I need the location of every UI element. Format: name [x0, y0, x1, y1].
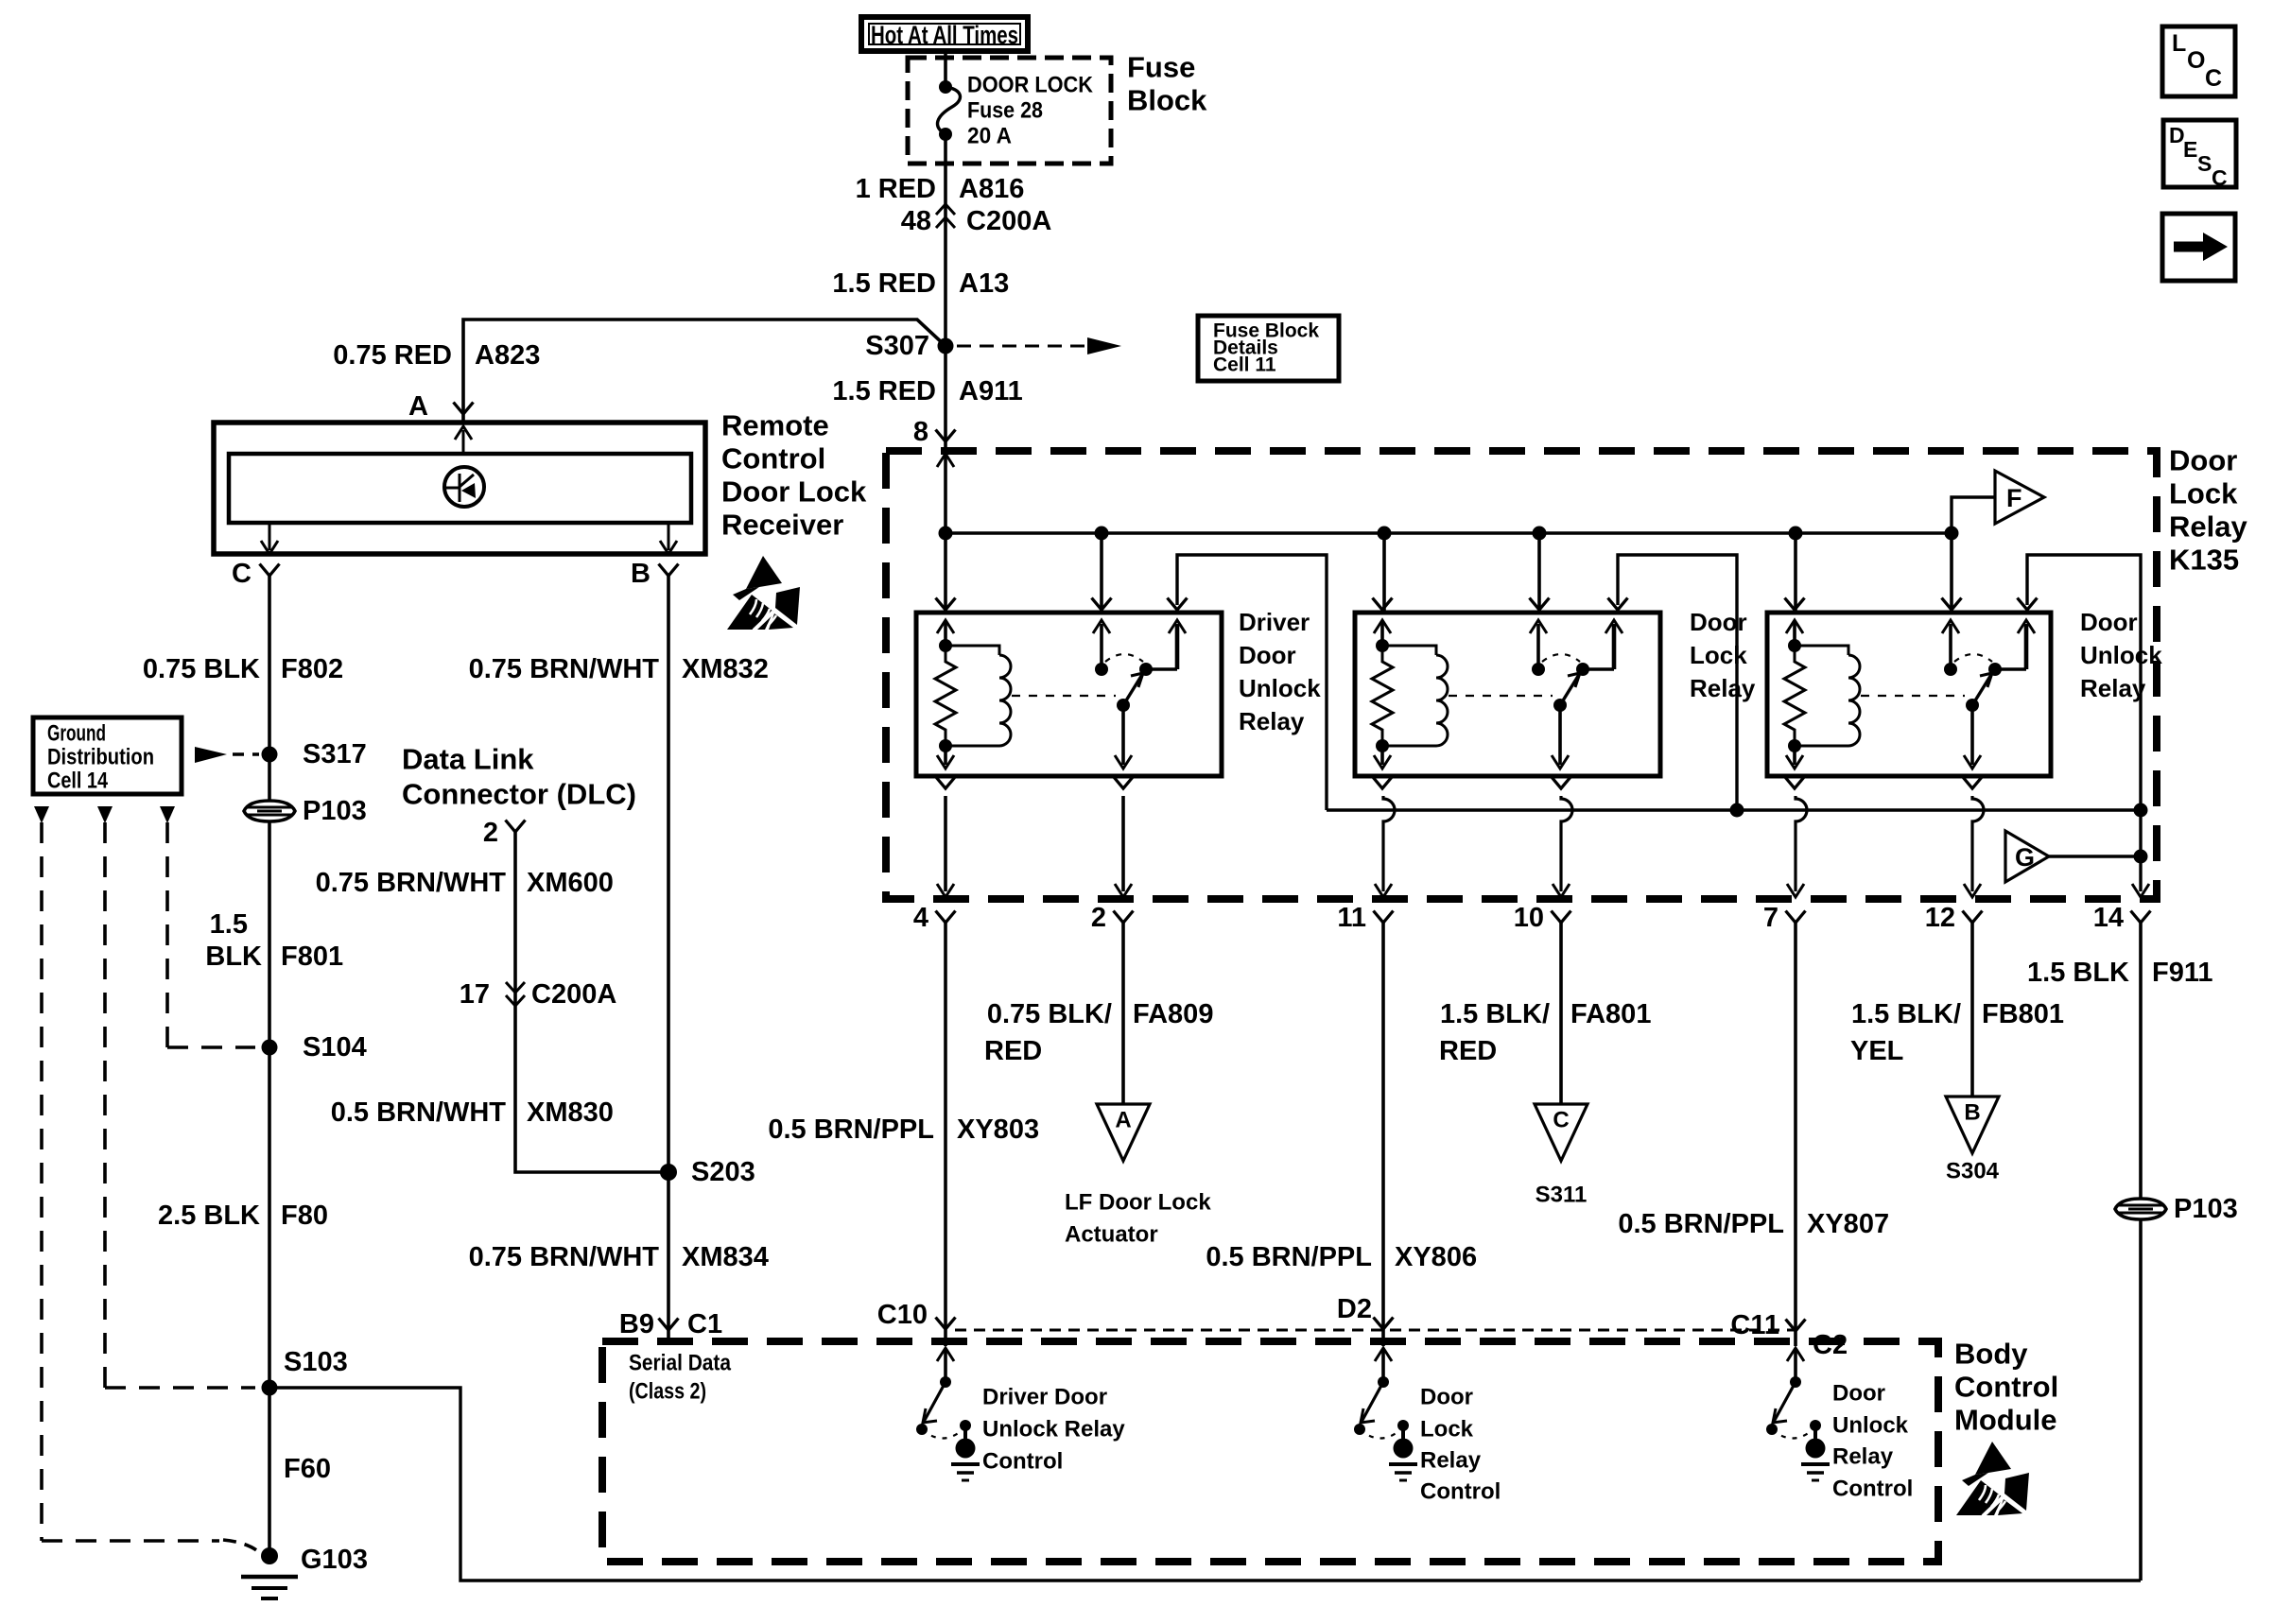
svg-text:Body: Body	[1954, 1338, 2028, 1371]
svg-text:Door: Door	[2169, 444, 2237, 477]
svg-text:DOOR LOCK: DOOR LOCK	[967, 73, 1094, 98]
label S304	[1946, 1159, 2000, 1184]
connector pin 2 below relay box	[1091, 903, 1134, 933]
svg-text:C: C	[2212, 165, 2228, 190]
svg-text:FB801: FB801	[1982, 999, 2064, 1029]
relay 1 top connectors	[936, 598, 1188, 611]
svg-text:Connector (DLC): Connector (DLC)	[402, 778, 636, 811]
ref box Fuse Block Details Cell 11	[1198, 316, 1339, 381]
svg-text:14: 14	[2093, 903, 2124, 933]
relay 1 internals: coil, resistor, switch	[935, 620, 1186, 769]
svg-text:Relay: Relay	[1832, 1444, 1894, 1470]
relay 3 internals: coil, resistor, switch	[1784, 620, 2035, 769]
connector pin 14 below relay box	[2093, 903, 2151, 933]
wire label 0.5 BRN/PPL XY803	[768, 1114, 1039, 1145]
svg-text:Module: Module	[1954, 1404, 2057, 1437]
wire label 1.5 RED A911	[832, 376, 1022, 406]
wire label 0.75 BLK/RED FA809	[984, 999, 1213, 1066]
svg-text:Distribution: Distribution	[47, 745, 154, 770]
connector pin 12 below relay box	[1925, 903, 1983, 933]
svg-text:F911: F911	[2152, 958, 2213, 988]
svg-text:RED: RED	[984, 1036, 1042, 1066]
wire pin14 down to bottom run	[2139, 923, 2143, 1581]
wire pin7 to BCM C11	[1794, 923, 1797, 1346]
svg-text:Lock: Lock	[1420, 1417, 1474, 1443]
svg-text:Control: Control	[1420, 1479, 1501, 1505]
svg-text:20 A: 20 A	[967, 124, 1012, 149]
receiver pin B arrow	[660, 522, 677, 554]
svg-text:P103: P103	[2174, 1194, 2238, 1224]
wire A823: S307 diagonal + horizontal to receiver pin A	[463, 320, 946, 421]
connector G triangle	[2005, 831, 2148, 882]
svg-text:G: G	[2015, 843, 2035, 872]
wire label 0.75 BRN/WHT XM832	[469, 654, 769, 684]
svg-text:S103: S103	[284, 1347, 348, 1377]
connector C200A pin 48	[901, 204, 1052, 236]
connector A triangle to LF door lock actuator	[1097, 1104, 1150, 1161]
relay 3 output wire	[2027, 555, 2141, 891]
svg-text:48: 48	[901, 206, 931, 236]
label Serial Data (Class 2)	[629, 1351, 732, 1405]
wire: Hot box to fuse	[944, 51, 947, 87]
dashed ref arrow S307 to fuse details	[957, 337, 1121, 354]
label S311	[1536, 1183, 1588, 1208]
svg-text:B9: B9	[619, 1309, 654, 1339]
connector pin 11 below relay box	[1337, 903, 1393, 933]
ground G103	[241, 1545, 368, 1598]
svg-text:2: 2	[1091, 903, 1106, 933]
wire label 2.5 BLK F80	[158, 1201, 328, 1231]
relay 1 box (Driver Door Unlock Relay)	[916, 613, 1222, 776]
connector B triangle to S304	[1946, 1097, 1999, 1153]
dashed wire from cell14 to S103	[105, 822, 255, 1388]
wire pin10 to S311	[1559, 923, 1563, 1104]
connector DLC pin 2	[483, 818, 526, 848]
connector pin 8 into relay box	[913, 417, 956, 467]
svg-text:Fuse: Fuse	[1127, 51, 1195, 84]
wire label 0.5 BRN/WHT XM830	[331, 1097, 614, 1128]
svg-text:Relay: Relay	[1239, 707, 1305, 735]
svg-text:0.5 BRN/WHT: 0.5 BRN/WHT	[331, 1097, 507, 1128]
svg-text:FA801: FA801	[1570, 999, 1651, 1029]
dashed wire from cell14 to G103	[42, 822, 263, 1556]
dashed ref arrow to S317	[195, 747, 259, 763]
wire: S307 to pin 8	[944, 346, 947, 613]
wire label 0.5 BRN/PPL XY807	[1618, 1209, 1889, 1239]
svg-text:XM832: XM832	[682, 654, 769, 684]
fuse F28 symbol	[938, 80, 961, 141]
svg-text:Fuse 28: Fuse 28	[967, 98, 1043, 124]
svg-text:S203: S203	[691, 1157, 755, 1187]
wire pin2 to actuator	[1121, 923, 1125, 1104]
bus junction dots	[939, 527, 1959, 541]
fuse block dashed box	[908, 58, 1111, 164]
label P103 right	[2174, 1194, 2238, 1224]
relay 1 output wire	[1177, 555, 1327, 810]
ESD symbol at BCM	[1956, 1442, 2029, 1516]
label Door Lock Relay K135	[2169, 444, 2247, 577]
BCM door lock relay control switch	[1354, 1348, 1417, 1480]
connector pin B	[631, 559, 678, 589]
svg-text:A823: A823	[475, 340, 540, 371]
receiver outer box	[214, 423, 705, 554]
svg-text:0.5 BRN/PPL: 0.5 BRN/PPL	[768, 1114, 934, 1145]
legend box DESC	[2163, 120, 2236, 190]
svg-text:XY803: XY803	[957, 1114, 1039, 1145]
svg-text:XM830: XM830	[527, 1097, 614, 1128]
wire: S103 to bottom run to P103	[269, 1388, 2141, 1581]
cell14 arrowheads	[34, 806, 175, 823]
relay 2 box (Door Lock Relay)	[1355, 613, 1660, 776]
svg-text:F: F	[2006, 484, 2022, 512]
svg-text:A911: A911	[959, 376, 1023, 406]
relay pin 14 arrow	[2132, 884, 2149, 897]
svg-text:A: A	[1115, 1108, 1131, 1133]
svg-text:Door: Door	[1239, 641, 1296, 669]
svg-text:S: S	[2197, 151, 2212, 176]
svg-text:BLK: BLK	[205, 942, 262, 972]
connector C200A pin 17	[460, 979, 617, 1010]
connector C triangle to S311	[1535, 1104, 1588, 1161]
svg-text:1.5 RED: 1.5 RED	[832, 376, 936, 406]
svg-text:1.5 RED: 1.5 RED	[832, 268, 936, 299]
legend box arrow	[2162, 214, 2235, 281]
wire pin11 to BCM D2	[1381, 923, 1385, 1346]
svg-text:S311: S311	[1536, 1183, 1588, 1208]
svg-text:Control: Control	[721, 442, 825, 475]
svg-text:C: C	[1553, 1108, 1569, 1133]
svg-text:Unlock Relay: Unlock Relay	[982, 1417, 1125, 1443]
splice S317	[262, 739, 367, 769]
label LF Door Lock Actuator	[1065, 1190, 1211, 1248]
svg-text:F801: F801	[281, 942, 343, 972]
label Driver Door Unlock Relay Control	[982, 1385, 1125, 1475]
label Door Unlock Relay Control	[1832, 1381, 1913, 1502]
svg-text:Remote: Remote	[721, 409, 829, 442]
relay 1 bottom connectors	[936, 777, 1134, 789]
svg-text:Data Link: Data Link	[402, 743, 534, 776]
svg-text:S307: S307	[865, 331, 929, 361]
splice S104	[262, 1032, 367, 1063]
svg-text:A816: A816	[959, 174, 1024, 204]
svg-text:Driver Door: Driver Door	[982, 1385, 1107, 1410]
svg-text:12: 12	[1925, 903, 1955, 933]
wire label 1.5 BLK F801	[205, 909, 343, 972]
wire label 0.5 BRN/PPL XY806	[1206, 1242, 1477, 1272]
splice S307	[865, 331, 953, 361]
label Data Link Connector (DLC)	[402, 743, 636, 811]
ESD symbol at receiver	[727, 556, 800, 631]
svg-text:(Class 2): (Class 2)	[629, 1379, 706, 1405]
receiver pin A arrow	[455, 426, 472, 453]
svg-text:Ground: Ground	[47, 721, 106, 747]
splice S203	[660, 1157, 755, 1187]
svg-text:0.5 BRN/PPL: 0.5 BRN/PPL	[1618, 1209, 1784, 1239]
connector pin 4 below relay box	[913, 903, 956, 933]
BCM connector dashed pin line	[955, 1329, 1796, 1332]
svg-text:B: B	[631, 559, 651, 589]
relay 2 bottom connectors	[1373, 777, 1571, 789]
svg-text:1.5 BLK/: 1.5 BLK/	[1851, 999, 1961, 1029]
svg-text:Relay: Relay	[1690, 674, 1756, 702]
svg-text:Relay: Relay	[2169, 510, 2247, 544]
relay pin 7 wire	[1787, 796, 1807, 897]
wire: receiver B down to BCM pin B9/C1	[667, 576, 670, 1341]
svg-text:Door: Door	[1832, 1381, 1885, 1407]
svg-text:Control: Control	[1832, 1477, 1913, 1502]
connector F triangle	[1995, 471, 2044, 524]
connector pin 7 below relay box	[1763, 903, 1806, 933]
ground distribution box	[33, 717, 182, 794]
wire: fuse to C200A	[944, 134, 947, 346]
svg-text:Lock: Lock	[1690, 641, 1747, 669]
wire label 0.75 RED A823	[333, 340, 540, 371]
wire label 1.5 BLK F911	[2027, 958, 2212, 988]
power label box: Hot At All Times	[861, 17, 1028, 51]
svg-text:2: 2	[483, 818, 498, 848]
wire: receiver C down to G103	[268, 576, 271, 1556]
svg-text:Driver: Driver	[1239, 608, 1310, 636]
svg-text:S104: S104	[303, 1032, 367, 1063]
svg-text:XM834: XM834	[682, 1242, 769, 1272]
svg-text:F80: F80	[281, 1201, 328, 1231]
wire label 0.75 BRN/WHT XM600	[316, 868, 614, 898]
body control module dashed box	[602, 1341, 1938, 1562]
relay 3 bottom connectors	[1785, 777, 1983, 789]
svg-text:0.75 BLK: 0.75 BLK	[143, 654, 260, 684]
svg-text:C: C	[2205, 65, 2222, 92]
svg-text:1 RED: 1 RED	[856, 174, 936, 204]
label Remote Control Door Lock Receiver	[721, 409, 867, 542]
svg-text:C: C	[232, 559, 252, 589]
wire label 1 RED A816	[856, 174, 1025, 204]
svg-text:Control: Control	[982, 1449, 1063, 1475]
relay outputs bus	[1327, 803, 2148, 818]
relay pin 4 wire	[937, 796, 954, 897]
svg-text:2.5 BLK: 2.5 BLK	[158, 1201, 260, 1231]
svg-text:Unlock: Unlock	[1239, 674, 1321, 702]
relay 2 internals: coil, resistor, switch	[1372, 620, 1622, 769]
svg-text:Lock: Lock	[2169, 477, 2238, 510]
label Fuse Block	[1127, 51, 1207, 117]
svg-text:C11: C11	[1730, 1310, 1779, 1340]
svg-text:0.5 BRN/PPL: 0.5 BRN/PPL	[1206, 1242, 1372, 1272]
svg-text:FA809: FA809	[1133, 999, 1213, 1029]
svg-text:P103: P103	[303, 796, 367, 826]
relay pin 10 wire	[1553, 796, 1572, 897]
wire label 0.75 BRN/WHT XM834	[469, 1242, 769, 1272]
svg-text:7: 7	[1763, 903, 1778, 933]
relay pin 11 wire	[1375, 796, 1395, 897]
svg-text:XM600: XM600	[527, 868, 614, 898]
svg-text:8: 8	[913, 417, 928, 447]
svg-text:C2: C2	[1813, 1330, 1848, 1360]
legend box LOC	[2162, 26, 2235, 96]
svg-text:0.75 BRN/WHT: 0.75 BRN/WHT	[469, 654, 660, 684]
label Door Lock Relay	[1690, 608, 1756, 702]
receiver antenna circle symbol	[444, 467, 484, 507]
svg-text:F60: F60	[284, 1454, 331, 1484]
bus wire from pin 8 across relay coils	[946, 531, 1952, 534]
svg-text:0.75 BLK/: 0.75 BLK/	[987, 999, 1112, 1029]
label Door Unlock Relay	[2080, 608, 2162, 702]
fuse text DOOR LOCK Fuse 28 20 A	[967, 73, 1094, 149]
receiver pin C arrow	[261, 522, 278, 554]
svg-text:C200A: C200A	[531, 979, 616, 1010]
svg-text:G103: G103	[301, 1545, 368, 1575]
svg-text:Serial Data: Serial Data	[629, 1351, 732, 1376]
grommet P103 right	[2115, 1199, 2166, 1219]
BCM driver door unlock relay control switch	[916, 1348, 980, 1480]
svg-text:Unlock: Unlock	[2080, 641, 2162, 669]
wire pin4 to BCM C10	[944, 923, 947, 1346]
svg-text:0.75 BRN/WHT: 0.75 BRN/WHT	[469, 1242, 660, 1272]
svg-text:B: B	[1964, 1100, 1980, 1126]
wire label 1.5 BLK/RED FA801	[1439, 999, 1651, 1066]
svg-text:LF Door Lock: LF Door Lock	[1065, 1190, 1211, 1216]
svg-text:Control: Control	[1954, 1371, 2058, 1404]
svg-text:C1: C1	[687, 1309, 722, 1339]
label Driver Door Unlock Relay	[1239, 608, 1321, 735]
svg-text:RED: RED	[1439, 1036, 1497, 1066]
svg-text:0.75 RED: 0.75 RED	[333, 340, 452, 371]
relay 3 top connectors	[1785, 598, 2038, 611]
wire label 0.75 BLK F802	[143, 654, 343, 684]
svg-text:F802: F802	[281, 654, 343, 684]
svg-text:A13: A13	[959, 268, 1009, 299]
svg-text:A: A	[408, 391, 428, 422]
svg-text:4: 4	[913, 903, 928, 933]
svg-text:Actuator: Actuator	[1065, 1222, 1158, 1248]
wire label F60	[284, 1454, 331, 1484]
svg-text:Relay: Relay	[1420, 1448, 1482, 1474]
svg-text:Door: Door	[1420, 1385, 1473, 1410]
label Body Control Module	[1954, 1338, 2058, 1437]
svg-text:Unlock: Unlock	[1832, 1413, 1909, 1439]
splice S103	[262, 1347, 348, 1396]
connector pin C	[232, 559, 279, 589]
wire label 1.5 BLK/YEL FB801	[1850, 999, 2064, 1066]
relay pin 2 wire	[1115, 796, 1132, 897]
svg-text:Cell 14: Cell 14	[47, 769, 109, 794]
svg-text:XY807: XY807	[1807, 1209, 1889, 1239]
wire: DLC pin2 down to S203	[515, 832, 661, 1172]
relay pin 12 wire	[1964, 796, 1984, 897]
svg-text:11: 11	[1337, 903, 1366, 933]
svg-text:L: L	[2172, 30, 2186, 57]
svg-text:XY806: XY806	[1395, 1242, 1477, 1272]
svg-text:C10: C10	[877, 1300, 928, 1330]
connector pin 10 below relay box	[1514, 903, 1571, 933]
connector C11 C2	[1730, 1310, 1848, 1360]
svg-text:E: E	[2183, 137, 2197, 162]
relay 3 box (Door Unlock Relay)	[1767, 613, 2051, 776]
svg-text:1.5 BLK: 1.5 BLK	[2027, 958, 2129, 988]
svg-text:Door: Door	[2080, 608, 2138, 636]
svg-text:Block: Block	[1127, 84, 1207, 117]
receiver inner box	[229, 454, 691, 523]
wire pin12 to S304	[1970, 923, 1974, 1097]
svg-text:S317: S317	[303, 739, 367, 769]
wire to F connector	[1952, 497, 1995, 533]
svg-text:K135: K135	[2169, 544, 2239, 577]
svg-text:Relay: Relay	[2080, 674, 2146, 702]
svg-text:Receiver: Receiver	[721, 509, 843, 542]
svg-text:S304: S304	[1946, 1159, 2000, 1184]
relay 2 top connectors	[1373, 598, 1628, 611]
svg-text:1.5 BLK/: 1.5 BLK/	[1440, 999, 1550, 1029]
svg-text:10: 10	[1514, 903, 1544, 933]
svg-text:1.5: 1.5	[210, 909, 248, 940]
svg-text:Hot At All Times: Hot At All Times	[871, 21, 1018, 49]
connector D2	[1337, 1294, 1394, 1329]
relay 2 output wire	[1618, 555, 1737, 810]
wire label 1.5 RED A13	[832, 268, 1009, 299]
door lock relay K135 dashed box	[886, 451, 2157, 899]
svg-text:D2: D2	[1337, 1294, 1372, 1324]
svg-text:17: 17	[460, 979, 490, 1010]
svg-text:C200A: C200A	[966, 206, 1051, 236]
label P103 left	[303, 796, 367, 826]
svg-text:O: O	[2187, 47, 2205, 74]
dashed wire from cell14 to S104	[167, 822, 255, 1047]
svg-text:Door Lock: Door Lock	[721, 475, 867, 509]
svg-text:Cell 11: Cell 11	[1213, 354, 1276, 376]
svg-text:YEL: YEL	[1850, 1036, 1903, 1066]
connector B9 C1	[619, 1309, 722, 1339]
grommet P103 left	[244, 801, 295, 821]
bus vertical drops to relay pins	[1102, 533, 1952, 613]
connector C10	[877, 1300, 956, 1330]
label Door Lock Relay Control	[1420, 1385, 1501, 1505]
BCM door unlock relay control switch	[1766, 1348, 1830, 1480]
connector pin A	[408, 391, 473, 422]
svg-text:0.75 BRN/WHT: 0.75 BRN/WHT	[316, 868, 507, 898]
